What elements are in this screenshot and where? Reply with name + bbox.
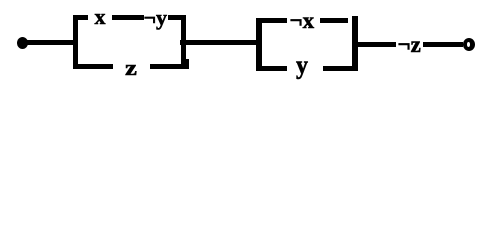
wire block2 top segment 2: [320, 18, 349, 23]
wire block2 bottom segment 2: [323, 66, 353, 71]
wire block1 top segment 3: [168, 15, 184, 20]
wire block1 bottom segment 1: [73, 64, 113, 69]
label not-y: [144, 7, 168, 29]
wire input to block1: [26, 40, 78, 45]
input terminal dot: [17, 37, 28, 49]
wire block2 bottom segment 1: [256, 66, 287, 71]
wire block1 bottom segment 2: [150, 64, 189, 69]
wire block1 to block2: [180, 40, 261, 46]
wire block2 top segment 1: [256, 18, 287, 23]
block1 right vertical: [181, 15, 186, 69]
block1 left vertical: [73, 15, 78, 68]
wire label to output: [423, 42, 463, 47]
block2 left vertical: [256, 18, 262, 72]
wire block1 top segment 2: [112, 15, 144, 20]
output terminal hole: [467, 42, 470, 47]
label y: [296, 52, 308, 79]
label not-x: [290, 9, 315, 32]
label x: [95, 6, 106, 28]
output terminal dot: [463, 38, 475, 51]
block1 bottom-right corner stub: [186, 59, 189, 65]
wire block1 top segment 1: [73, 15, 88, 20]
wire block2 to label: [357, 42, 396, 47]
label not-z: [398, 33, 421, 56]
label z: [125, 57, 137, 79]
block2 right vertical: [352, 16, 358, 71]
